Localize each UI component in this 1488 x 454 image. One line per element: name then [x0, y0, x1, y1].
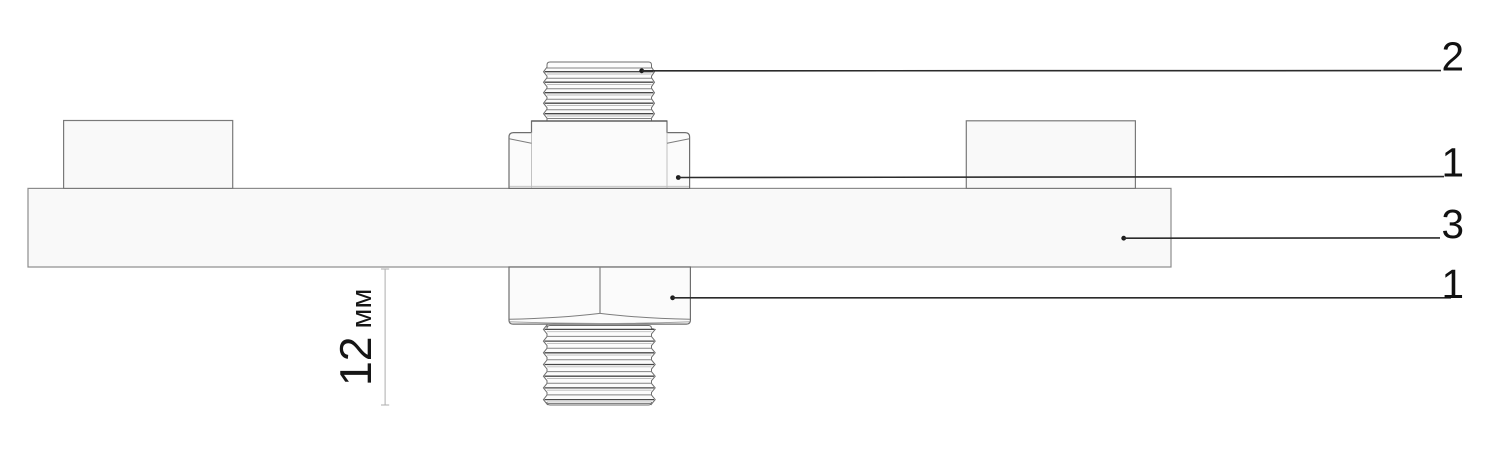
svg-text:1: 1 [1442, 140, 1465, 186]
svg-text:2: 2 [1442, 34, 1465, 80]
threaded stud, top end (part 2) [544, 62, 655, 121]
leader line to label 2 (stud) [639, 68, 644, 73]
dimension line (plate thickness reference) [384, 269, 386, 405]
top hex nut (part 1) [509, 121, 690, 188]
threaded stud, bottom end (part 2) [543, 325, 655, 405]
plate part 3 (steel bar) [28, 188, 1171, 267]
right clamped block [966, 121, 1135, 189]
svg-text:3: 3 [1442, 201, 1465, 247]
left clamped block [64, 121, 233, 189]
bottom hex nut (part 1) [509, 267, 690, 324]
leader line to bottom label 1 (bottom nut) [670, 295, 675, 300]
svg-text:1: 1 [1442, 261, 1465, 307]
leader line to top label 1 (top nut) [676, 175, 681, 180]
leader line to label 3 (plate) [1121, 236, 1126, 241]
